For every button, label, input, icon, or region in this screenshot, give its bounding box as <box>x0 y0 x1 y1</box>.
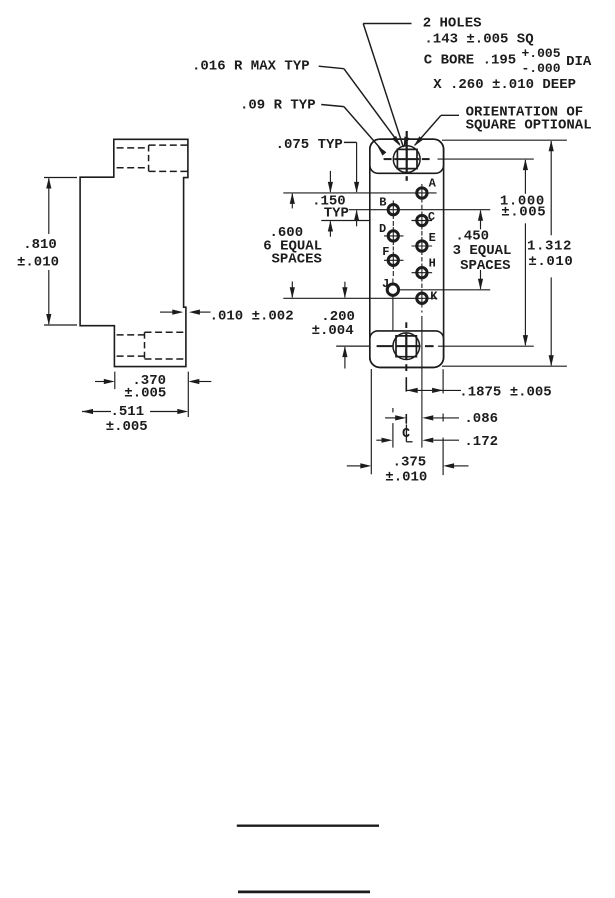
contact label A <box>429 176 437 190</box>
svg-text:F: F <box>382 245 389 259</box>
svg-text:.086: .086 <box>464 411 498 427</box>
svg-text:D: D <box>379 222 386 236</box>
top mounting square hole <box>397 149 417 168</box>
svg-text:+.005: +.005 <box>522 46 561 61</box>
contact hole A <box>417 188 427 198</box>
dim .172 arrows <box>376 438 459 443</box>
svg-text:±.004: ±.004 <box>312 323 354 339</box>
svg-text:C: C <box>428 210 435 224</box>
svg-text:H: H <box>429 257 436 271</box>
contact label C <box>428 210 435 224</box>
dim 1.312 dimension line <box>549 140 554 366</box>
contact label F <box>382 245 389 259</box>
callout text 2 HOLES <box>423 16 482 32</box>
callout tolerance +.005 <box>522 46 561 61</box>
front view top mounting ear <box>370 139 444 173</box>
contact label E <box>429 231 436 245</box>
dim .600 text <box>263 225 322 267</box>
dim .375 arrows <box>347 463 469 468</box>
contact label H <box>429 257 436 271</box>
dim .150 TYP text <box>312 193 349 221</box>
dim 1.312 extension line top <box>442 139 567 141</box>
footer rule lower <box>238 891 370 894</box>
dim .450 text <box>453 229 512 275</box>
bottom mounting square hole <box>396 336 416 357</box>
svg-text:±.005: ±.005 <box>106 419 148 435</box>
svg-text:.1875 ±.005: .1875 ±.005 <box>459 385 551 401</box>
row B extension line <box>349 209 490 211</box>
svg-text:±.010: ±.010 <box>385 469 427 485</box>
dim .375 text <box>385 455 427 486</box>
callout .09 leader <box>321 105 386 156</box>
contact hole J (open) <box>387 284 398 295</box>
callout .09 R TYP text <box>240 98 316 114</box>
dim .086 text <box>464 411 498 427</box>
svg-text:C BORE .195: C BORE .195 <box>424 53 516 69</box>
svg-text:A: A <box>429 176 437 190</box>
contact label K <box>430 289 438 303</box>
dim .075 leader and arrows <box>344 142 359 226</box>
front view bottom mounting ear <box>370 331 444 368</box>
svg-text:E: E <box>429 231 436 245</box>
dim .810 text <box>17 237 59 270</box>
svg-text:DIA: DIA <box>566 54 592 70</box>
dim .1875 dimension line <box>407 388 461 393</box>
dim .370 extension lines <box>115 372 189 417</box>
callout ORIENTATION leader <box>414 115 459 146</box>
dim .075 TYP text <box>276 137 343 153</box>
contact label B <box>379 196 386 210</box>
svg-text:.09 R TYP: .09 R TYP <box>240 98 316 114</box>
svg-text:1.312: 1.312 <box>527 238 572 254</box>
svg-text:SQUARE OPTIONAL: SQUARE OPTIONAL <box>466 117 592 133</box>
top hole vertical centerline <box>406 131 408 181</box>
dim .200 arrows <box>342 282 347 369</box>
callout text C BORE <box>424 53 516 69</box>
svg-text:±.010: ±.010 <box>17 255 59 271</box>
side view hidden lines top flange <box>117 145 188 171</box>
svg-text:.010 ±.002: .010 ±.002 <box>210 309 294 325</box>
dim .511 dimension line <box>82 409 188 414</box>
svg-text:B: B <box>379 196 386 210</box>
callout text ORIENTATION OF <box>466 104 584 120</box>
contact hole E <box>412 241 433 251</box>
contact hole F <box>384 255 404 265</box>
dim .010 text <box>210 309 294 325</box>
left contact column centerline <box>392 201 394 331</box>
svg-text:J: J <box>382 277 389 291</box>
svg-text:X .260 ±.010 DEEP: X .260 ±.010 DEEP <box>433 77 576 93</box>
svg-text:.375: .375 <box>393 455 427 471</box>
dim .1875 text <box>459 385 551 401</box>
dim 1.000 extension line bottom <box>438 345 534 347</box>
contact hole H <box>412 268 433 278</box>
callout text DIA <box>566 54 592 70</box>
extension line left edge <box>370 369 372 474</box>
svg-text:2 HOLES: 2 HOLES <box>423 16 482 32</box>
callout .016 R MAX TYP text <box>192 59 310 75</box>
footer rule upper <box>237 825 379 827</box>
svg-text:.016 R MAX TYP: .016 R MAX TYP <box>192 59 310 75</box>
dim .511 text <box>106 404 148 435</box>
dim .600 dimension line <box>290 193 295 298</box>
callout text SQUARE OPTIONAL <box>466 117 592 133</box>
extension line right edge <box>442 369 444 475</box>
bottom hole horizontal centerline <box>336 345 433 347</box>
front view body outline <box>370 139 444 367</box>
callout tolerance -.000 <box>522 61 561 76</box>
svg-text:SPACES: SPACES <box>460 258 510 274</box>
callout text X .260 DEEP <box>433 77 576 93</box>
svg-text:.143 ±.005 SQ: .143 ±.005 SQ <box>424 32 533 48</box>
contact hole B <box>388 205 398 215</box>
top hole horizontal centerline <box>384 158 430 160</box>
contact label D <box>379 222 386 236</box>
svg-text:.075 TYP: .075 TYP <box>276 137 343 153</box>
bottom hole vertical centerline <box>405 322 407 423</box>
svg-text:±.005: ±.005 <box>501 205 546 221</box>
dim .150 arrows <box>328 171 333 237</box>
dim 1.000 extension line top <box>438 158 534 160</box>
dim .172 text <box>464 434 498 450</box>
dim 1.000 text <box>500 193 546 220</box>
right contact column centerline <box>421 184 423 448</box>
contact hole C <box>417 215 427 225</box>
extension line left column <box>392 408 394 448</box>
dim .370 arrows <box>95 379 211 384</box>
callout .016 leader <box>319 66 401 146</box>
dim .200 text <box>312 309 355 339</box>
dim .450 dimension line <box>478 210 483 290</box>
dim 1.312 extension line bottom <box>442 365 567 367</box>
row A extension line <box>283 192 436 194</box>
contact hole D <box>384 231 404 241</box>
svg-text:.172: .172 <box>464 434 498 450</box>
svg-text:±.005: ±.005 <box>124 386 166 402</box>
bottom mounting hole c'bore circle <box>393 333 420 360</box>
svg-text:3 EQUAL: 3 EQUAL <box>453 243 512 259</box>
dim 1.312 text <box>527 238 573 270</box>
svg-text:-.000: -.000 <box>522 61 561 76</box>
svg-text:.511: .511 <box>111 404 145 420</box>
contact label J <box>382 277 389 291</box>
dim .370 text <box>124 373 166 402</box>
dim .086 arrows <box>385 415 459 420</box>
callout text .143 sq <box>424 32 533 48</box>
contact hole K <box>417 293 427 303</box>
svg-text:SPACES: SPACES <box>272 251 322 267</box>
svg-text:±.010: ±.010 <box>528 254 573 270</box>
dim .810 extension lines <box>44 178 77 326</box>
row C extension line <box>321 220 432 222</box>
dim 1.000 dimension line <box>523 159 528 346</box>
dim .010 step arrows <box>160 310 211 315</box>
callout 2 HOLES leader <box>363 24 411 148</box>
row K extension line <box>283 297 437 299</box>
centerline symbol <box>402 425 413 442</box>
top mounting hole c'bore circle <box>393 146 420 173</box>
svg-text:K: K <box>430 289 438 303</box>
svg-text:TYP: TYP <box>324 206 349 222</box>
side view hidden lines bottom flange <box>117 332 187 359</box>
svg-text:.810: .810 <box>23 237 57 253</box>
row J extension line <box>399 289 490 291</box>
dim .810 dimension line <box>46 178 51 326</box>
side view outline <box>80 139 188 366</box>
